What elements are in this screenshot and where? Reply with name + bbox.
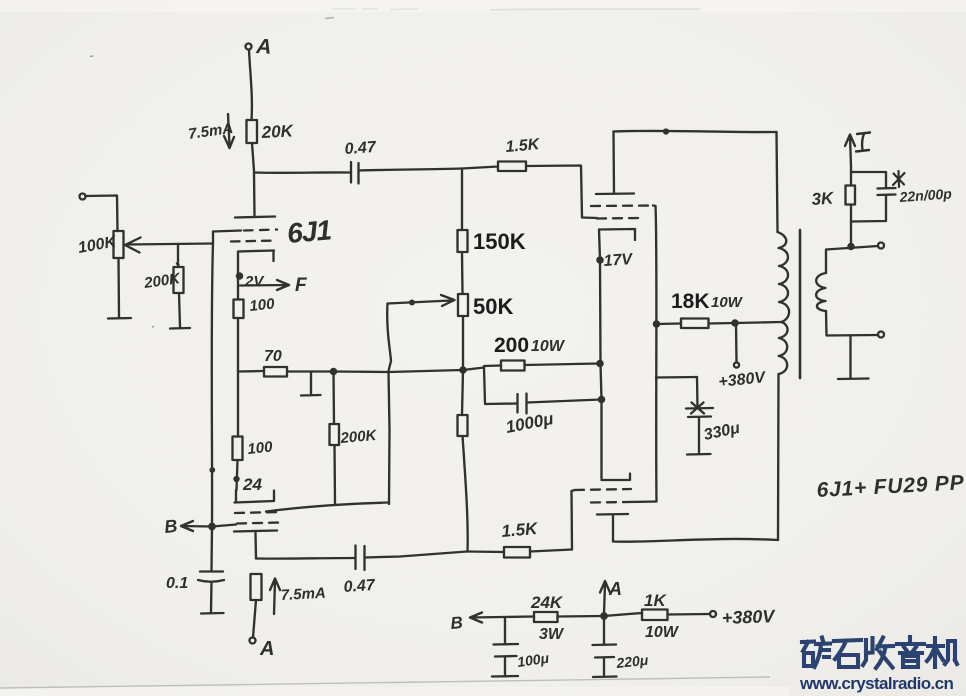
resistor 100 (upper cathode) <box>234 300 244 319</box>
wire 1.5K to grid riser <box>530 550 572 552</box>
junction dot screen/18K <box>654 321 659 326</box>
capacitor 220u to ground <box>603 658 605 675</box>
node 2V (cathode junction dot) <box>237 273 242 278</box>
ground bar below 0.1 <box>201 612 224 615</box>
grid riser to lower FU29 <box>570 491 573 550</box>
transformer secondary coil <box>816 273 826 311</box>
resistor 1.5K (top grid stopper) <box>498 162 526 172</box>
tube FU29 lower: grid 2 (dashed) <box>591 501 628 504</box>
tube 6J1 upper: grid 2 (dashed) <box>231 241 277 242</box>
terminal secondary top <box>878 243 884 249</box>
wire arrow to potentiometer 100K wiper <box>125 238 213 253</box>
wire to primary centre tap <box>735 322 782 323</box>
capacitor 22n plates <box>878 188 896 195</box>
wire down to 1000u row <box>484 368 485 404</box>
wire 1.5K to FU29 grid corner <box>526 166 582 218</box>
label I (feedback) <box>856 133 870 152</box>
resistor 1K body <box>642 610 668 621</box>
capacitor C 0.47 (bottom coupling) <box>356 546 365 571</box>
wire 200 to 17V line <box>525 364 600 366</box>
current arrow 7.5mA (up) <box>270 579 280 615</box>
capacitor 100u plates <box>494 644 519 657</box>
ground bar 330u <box>687 453 711 456</box>
screen vertical wire x655 <box>656 206 657 502</box>
ground bar secondary <box>838 377 869 380</box>
junction dot 150K column <box>460 367 465 372</box>
junction dot at 17V line / 200 <box>597 361 602 366</box>
tube 6J1 upper: grid 1 lead <box>213 231 241 232</box>
resistor 50K body <box>458 294 468 316</box>
transformer primary lower coil <box>779 322 788 374</box>
svg-text:www.crystalradio.cn: www.crystalradio.cn <box>799 674 954 693</box>
capacitor 100u to ground <box>504 657 506 675</box>
wire 20K to junction <box>252 143 254 171</box>
wire terminal to pot top <box>86 196 118 232</box>
secondary bottom wire <box>826 311 878 336</box>
wire 50K down to junction <box>462 316 464 370</box>
wire 2V node to 100 resistor <box>237 274 239 300</box>
wire plate up to top rail <box>612 132 615 194</box>
wire lower plate row to capacitor 0.47 <box>256 557 355 560</box>
feedback network: arrow I up <box>845 135 855 167</box>
watermark crystalradio <box>802 637 957 668</box>
stray dot mid <box>152 326 154 329</box>
wire grid to long vertical (to B) <box>212 232 214 243</box>
node A (top input terminal) <box>246 44 252 50</box>
wire 330u to ground <box>698 418 700 454</box>
wire to resistor 200 <box>484 366 501 368</box>
capacitor 330u plus X mark <box>686 403 713 418</box>
node A (bottom terminal) <box>250 638 256 644</box>
arrow into 50K slider <box>388 295 455 306</box>
resistor 1.5K bottom body <box>504 547 530 558</box>
wire 1.5K bottom row left <box>467 550 504 553</box>
wire grid2 to screen vertical <box>628 500 657 503</box>
wire 200K right down to 1.5K row <box>463 436 468 552</box>
wire 70 row left segment <box>238 370 264 373</box>
junction blob on 50K arrow <box>410 301 414 305</box>
resistor 200K left body <box>174 267 184 293</box>
watermark char ji <box>927 638 957 667</box>
wire 1000u right lead <box>527 400 601 403</box>
capacitor C 0.47 (top coupling) <box>351 162 359 184</box>
capacitor 220u stub <box>603 616 605 644</box>
power rail: arrow B <box>470 613 534 623</box>
junction dot at 17V line / 1000u <box>599 397 604 402</box>
tube FU29 upper: cathode <box>599 229 635 240</box>
tube 6J1 lower: grid 1 (dashed) <box>235 512 280 513</box>
pot bottom terminal bar <box>108 317 131 320</box>
wire 1K to +380V terminal <box>668 613 711 616</box>
watermark char yin <box>897 637 924 667</box>
arrow B (lower grid input) <box>181 521 212 531</box>
wire 3K to secondary junction <box>850 205 852 247</box>
junction dot 24 node <box>235 477 239 481</box>
wire screen to 330u branch <box>656 376 697 379</box>
wire 0.47 to 1.5K row <box>365 552 467 558</box>
ground bar 220u <box>593 675 617 678</box>
scanner band bottom <box>0 687 790 696</box>
capacitor 220u plates <box>593 645 617 658</box>
vertical wire x389 (50K arm) <box>387 304 391 505</box>
resistor 200K (middle) wire up <box>332 372 335 425</box>
faint pencil stroke bottom <box>0 677 770 688</box>
resistor 200K middle body <box>330 424 340 445</box>
junction dot 18K/+380V <box>732 320 737 325</box>
capacitor 1000u <box>518 394 527 414</box>
long grid wire down to lower tube grid / node B <box>212 242 213 527</box>
resistor 200 10W body <box>501 361 525 371</box>
smudge top <box>0 0 966 12</box>
junction dot A rail <box>601 613 606 618</box>
current arrow 7.5mA (down) <box>224 114 234 148</box>
wire 18K junction to +380V terminal <box>735 323 738 362</box>
wire 24K to A junction <box>558 615 605 618</box>
terminal +380V rail <box>710 611 716 617</box>
wire 70 to 200K junction <box>287 370 333 372</box>
capacitor C 0.1 <box>198 572 224 582</box>
transformer core <box>799 230 802 378</box>
arrow to F (heater) <box>240 280 289 290</box>
wire 200K middle down to cathode row <box>333 445 336 505</box>
cathode (17V) line down <box>599 230 602 479</box>
wire transformer bottom riser <box>777 374 780 540</box>
wire pot bottom to end bar <box>117 258 120 317</box>
resistor 100 (lower cathode) <box>233 437 243 461</box>
wire to resistor 1.5K top <box>462 167 498 169</box>
tube FU29 lower: cathode bracket <box>602 474 631 481</box>
resistor 18K lead left <box>657 322 682 325</box>
junction dot secondary top <box>848 244 853 249</box>
wire lower 100 to cathode bracket <box>237 460 238 490</box>
tube FU29 upper: grid 1 (dashed) <box>591 204 653 207</box>
wire plate to transformer bottom <box>613 539 778 542</box>
tube FU29 upper: grid 2 (dashed) <box>597 217 639 220</box>
wire junction to capacitor 0.47 <box>254 171 350 174</box>
secondary ground tap <box>849 336 851 378</box>
wire 18K to +380V junction <box>709 322 736 325</box>
potentiometer 100K input terminal <box>80 194 86 200</box>
tick on grid wire <box>211 468 214 471</box>
wire 0.47 to node 150K column <box>359 169 462 171</box>
potentiometer 100K body <box>114 231 124 258</box>
ground stub of 70 row <box>301 372 321 396</box>
tube FU29 lower: grid 1 (dashed) <box>575 489 631 490</box>
tube FU29 upper: grid2 lead from 1.5K <box>582 216 597 219</box>
resistor 70 (shared cathode) <box>264 367 287 377</box>
terminal +380V (centre tap) <box>734 362 739 367</box>
wire 70 row to lower 100 <box>237 372 239 437</box>
transformer primary upper coil <box>778 232 790 322</box>
resistor 200K (grid leak, left) wire up <box>177 244 179 267</box>
wire 200K to end bar <box>179 293 180 327</box>
wire primary top riser <box>777 132 778 232</box>
junction dot B row <box>209 524 214 529</box>
top rail wire to transformer <box>614 131 777 132</box>
wire 100 resistor down to 70 row <box>237 318 239 372</box>
terminal secondary bottom <box>878 332 884 338</box>
wire A to R 20K <box>249 50 252 120</box>
wire junction to 200/10W network <box>463 368 484 371</box>
tube FU29 upper: plate <box>596 192 634 195</box>
capacitor 22n/100p loop top <box>851 172 886 188</box>
wire I to 3K <box>850 166 852 186</box>
tube 6J1 lower: plate <box>234 531 277 532</box>
wire 1000u left lead <box>485 402 517 405</box>
tube 6J1 lower: grid 2 (dashed) <box>237 523 280 524</box>
wire resistor to node A bottom <box>253 600 256 638</box>
wire down to 330u <box>696 377 699 407</box>
ground bar 100u <box>492 675 518 678</box>
wire 0.1 to ground <box>210 582 213 612</box>
resistor 200K (right column) body <box>458 415 468 436</box>
tube FU29 lower: plate <box>597 513 628 516</box>
capacitor loop bottom <box>851 195 886 222</box>
stray dot left <box>90 55 93 58</box>
wire grid1 lead from 1.5K riser <box>572 490 576 491</box>
wire plate down <box>612 515 614 542</box>
wire junction to resistor 150K <box>461 169 463 231</box>
capacitor 100u stub <box>504 618 506 644</box>
watermark char shi <box>834 640 861 667</box>
wire B vertical down to C 0.1 <box>210 527 213 570</box>
watermark char kuang <box>802 638 830 668</box>
wire junction to vertical 389 <box>334 370 390 373</box>
tube 6J1 upper: plate <box>235 217 275 218</box>
junction dot at 200K mid <box>331 369 336 374</box>
wire junction down to 200K right <box>462 370 463 415</box>
junction blob on top rail <box>664 130 668 134</box>
tube 6J1 upper: grid 1 (dashed) <box>244 230 277 231</box>
resistor 150K body <box>458 230 468 252</box>
resistor 20K <box>247 120 258 143</box>
label asterisk <box>893 171 905 187</box>
junction dot 17V <box>597 257 602 262</box>
wire junction down to 6J1 plate <box>253 173 256 217</box>
secondary top wire <box>826 246 878 273</box>
wire to 150K column junction <box>389 370 463 372</box>
wire B junction to lower grid <box>212 525 236 527</box>
watermark char shou <box>863 638 893 669</box>
wire 150K to 50K <box>461 252 464 294</box>
lower cathode row wire <box>266 503 389 512</box>
arrow A up <box>600 581 610 614</box>
tube 6J1 lower: cathode bracket <box>235 490 275 503</box>
tube 6J1 upper: cathode <box>238 251 274 275</box>
stray mark top <box>325 18 334 19</box>
wire A junction to 1K <box>604 613 642 616</box>
resistor 18K body <box>681 319 709 329</box>
resistor (lower plate load, unlabeled) <box>251 574 262 600</box>
resistor 24K body <box>534 612 558 622</box>
wire plate to coupling row <box>254 533 257 559</box>
wire grid1 to screen vertical <box>653 204 656 207</box>
resistor 3K body <box>846 186 856 205</box>
200K bottom terminal bar <box>170 327 190 330</box>
